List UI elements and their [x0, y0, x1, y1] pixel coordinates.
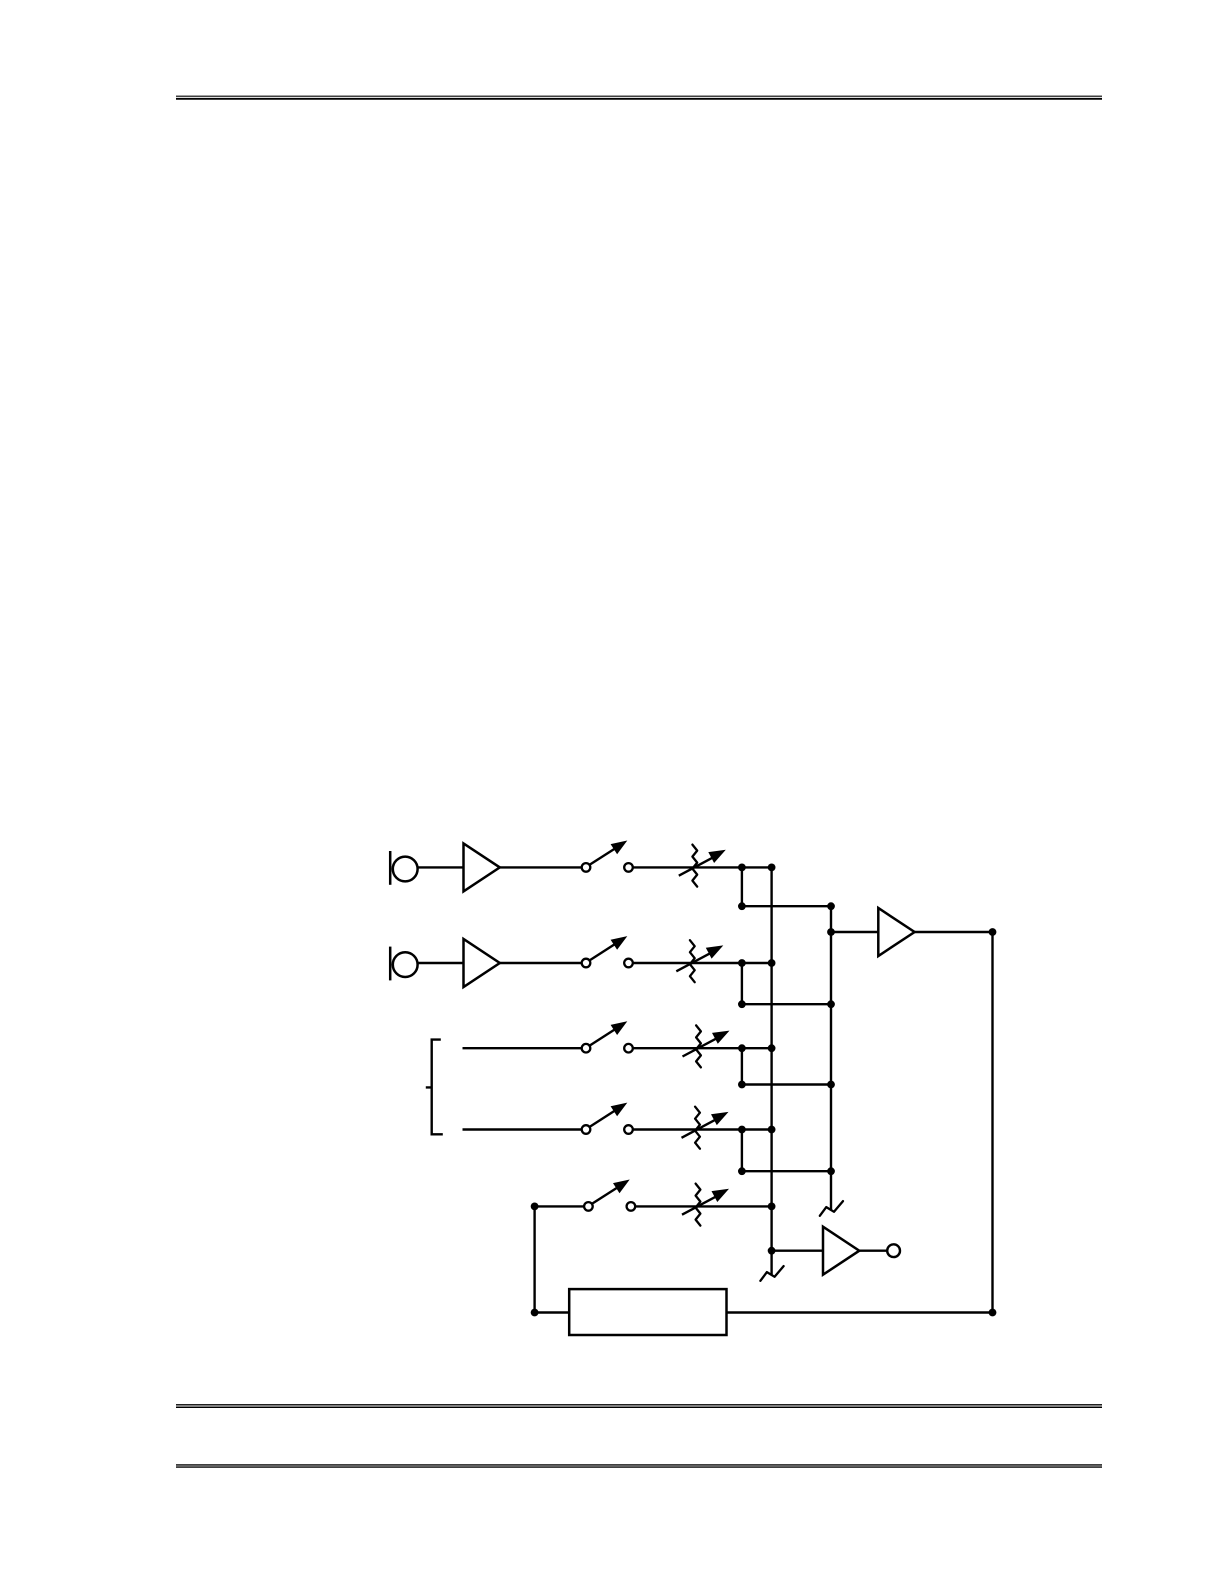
amplifier U1 [878, 908, 914, 956]
wire [633, 1128, 772, 1130]
amplifier A2 [464, 939, 500, 987]
wire [463, 1047, 582, 1049]
microphone MIC2 [390, 947, 417, 981]
wire [535, 1311, 570, 1313]
wire [914, 931, 992, 933]
wire [418, 866, 464, 868]
microphone MIC1 [390, 851, 417, 885]
switch S5 [584, 1180, 635, 1211]
bus 2 break mark [820, 1201, 843, 1216]
wire [991, 932, 993, 1313]
wire [742, 1083, 831, 1085]
junction node [738, 1044, 746, 1052]
junction node [738, 1167, 746, 1175]
switch S4 [582, 1103, 633, 1134]
feedback network box [569, 1289, 726, 1335]
wire [742, 1170, 831, 1172]
switch S2 [582, 936, 633, 967]
bus 1 break mark [760, 1266, 783, 1281]
top double rule [176, 96, 1102, 99]
junction node [989, 928, 997, 936]
wire [633, 962, 772, 964]
junction node [827, 1081, 835, 1089]
wire [463, 1128, 582, 1130]
wire [741, 963, 743, 1004]
switch S1 [582, 841, 633, 872]
junction node [738, 1081, 746, 1089]
wire [500, 866, 582, 868]
junction node [768, 1203, 776, 1211]
junction node [531, 1309, 539, 1317]
bus 1 [770, 867, 772, 1274]
junction node [989, 1309, 997, 1317]
variable attenuator VR3 [683, 1025, 730, 1067]
variable attenuator VR2 [676, 940, 723, 982]
wire [418, 962, 464, 964]
variable attenuator VR5 [682, 1184, 729, 1226]
variable attenuator VR4 [682, 1107, 729, 1149]
bus 2 [830, 906, 832, 1209]
junction node [738, 902, 746, 910]
wire [635, 1205, 771, 1207]
junction node [768, 1126, 776, 1134]
junction node [827, 1000, 835, 1008]
wire [727, 1311, 993, 1313]
junction node [827, 1167, 835, 1175]
junction node [768, 864, 776, 872]
wire [859, 1249, 887, 1251]
wire [742, 905, 831, 907]
junction node [531, 1203, 539, 1211]
wire [741, 1048, 743, 1084]
junction node [738, 1000, 746, 1008]
bottom double rule 2 [176, 1465, 1102, 1467]
wire [533, 1206, 535, 1312]
junction node [768, 1044, 776, 1052]
variable attenuator VR1 [679, 845, 726, 887]
junction node [738, 959, 746, 967]
junction node [738, 1126, 746, 1134]
junction node [768, 959, 776, 967]
output terminal [887, 1244, 900, 1257]
input bracket [426, 1040, 443, 1135]
wire [741, 1130, 743, 1172]
wire [831, 931, 878, 933]
wire [535, 1205, 584, 1207]
wire [500, 962, 582, 964]
junction node [738, 864, 746, 872]
wire [633, 866, 772, 868]
bottom double rule 1 [176, 1405, 1102, 1408]
amplifier U2 [823, 1227, 859, 1275]
junction node [827, 902, 835, 910]
amplifier A1 [464, 843, 500, 891]
wire [772, 1249, 823, 1251]
switch S3 [582, 1021, 633, 1052]
wire [633, 1047, 772, 1049]
junction node [768, 1247, 776, 1255]
wire [742, 1003, 831, 1005]
junction node [827, 928, 835, 936]
wire [741, 867, 743, 906]
